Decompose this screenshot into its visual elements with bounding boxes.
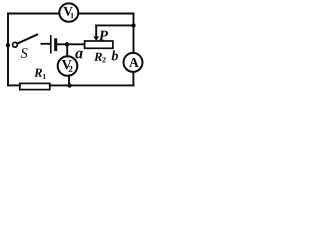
potentiometer wiper P arrow stem xyxy=(95,25,97,37)
label V2 xyxy=(62,60,73,72)
wire top-right horizontal xyxy=(79,13,134,15)
wire right vertical upper (down to ammeter) xyxy=(133,14,135,54)
wire battery to R2 terminal a xyxy=(57,43,84,45)
wire bottom left segment xyxy=(8,84,20,86)
resistor R1 body xyxy=(20,83,50,89)
voltmeter V1 xyxy=(59,3,78,21)
wire V2 bottom lead xyxy=(68,76,70,86)
wire left vertical xyxy=(7,14,9,86)
wire top-left horizontal xyxy=(8,13,59,15)
wire bottom right segment xyxy=(50,84,134,86)
voltmeter V2 xyxy=(58,56,78,76)
battery short thick plate xyxy=(54,40,57,50)
potentiometer wiper P arrowhead xyxy=(93,36,99,41)
battery long plate xyxy=(50,36,52,53)
label b xyxy=(112,50,118,60)
ammeter A xyxy=(124,53,143,72)
node switch junction on left wire xyxy=(6,43,10,47)
label R2 xyxy=(94,53,106,63)
label R1 xyxy=(34,69,46,79)
node V2 bottom junction xyxy=(67,83,71,87)
wire switch stationary to battery xyxy=(42,43,51,45)
label S xyxy=(21,48,28,58)
node V2 top junction xyxy=(65,42,69,46)
switch S blade xyxy=(17,35,37,44)
node junction wiper/right wire xyxy=(131,23,135,27)
label a xyxy=(75,51,82,59)
switch S pivot circle xyxy=(13,42,18,47)
wire V2 top lead xyxy=(66,44,68,56)
label A xyxy=(129,58,139,67)
wire right vertical lower xyxy=(132,73,134,86)
label P xyxy=(99,31,108,41)
label V1 xyxy=(63,7,73,18)
resistor R2 body xyxy=(85,41,113,48)
wire wiper horizontal xyxy=(96,24,133,26)
